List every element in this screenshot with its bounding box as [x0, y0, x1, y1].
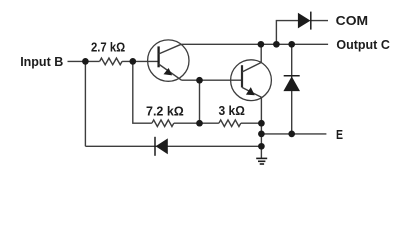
- wire 3k to emitter node: [241, 122, 262, 124]
- node ground rail junction: [258, 143, 265, 150]
- wire bottom rail: [85, 145, 261, 147]
- transistor Q2: [231, 44, 272, 100]
- wire 7.2k to node: [174, 122, 219, 124]
- svg-text:2.7 kΩ: 2.7 kΩ: [91, 41, 125, 55]
- node Q1 base junction: [129, 58, 136, 65]
- node Q2 collector junction: [258, 41, 265, 48]
- wire flyback vertical: [291, 44, 293, 134]
- ground: [256, 158, 267, 164]
- diode COM clamp: [298, 12, 311, 30]
- node input-resistor junction: [82, 58, 89, 65]
- label 3 kOhm: [219, 104, 245, 118]
- svg-text:COM: COM: [336, 14, 368, 28]
- svg-text:E: E: [336, 128, 343, 142]
- label Input B: [20, 55, 63, 69]
- wire output line: [181, 43, 328, 45]
- wire COM branch: [276, 21, 298, 45]
- label E: [336, 128, 343, 142]
- diode input clamp: [155, 137, 168, 156]
- wire Q2 emitter vertical: [260, 97, 262, 146]
- node flyback E junction: [288, 131, 295, 138]
- svg-text:3 kΩ: 3 kΩ: [219, 104, 245, 118]
- node Q1 emitter junction: [196, 77, 203, 84]
- svg-text:7.2 kΩ: 7.2 kΩ: [146, 104, 184, 118]
- resistor 7.2k zigzag: [152, 120, 174, 127]
- label COM: [336, 14, 368, 28]
- label Output C: [336, 38, 389, 52]
- node COM branch junction: [273, 41, 280, 48]
- node 3k emitter junction: [258, 120, 265, 127]
- diode flyback: [283, 76, 300, 91]
- svg-text:Input B: Input B: [20, 55, 63, 69]
- wire Q1 emitter node vertical: [199, 80, 201, 123]
- wire to Q1 base: [122, 60, 159, 62]
- resistor 2.7k zigzag: [100, 58, 123, 65]
- label 7.2 kOhm: [146, 104, 184, 118]
- wire left vertical to bottom rail: [84, 61, 86, 146]
- resistor 3k zigzag: [219, 120, 241, 127]
- transistor Q1: [148, 40, 189, 81]
- node flyback branch junction: [288, 41, 295, 48]
- wire input stub: [68, 60, 100, 62]
- wire ground stub: [260, 146, 262, 158]
- node 7.2k-3k junction: [196, 120, 203, 127]
- wire COM diode to label: [311, 20, 328, 22]
- wire base-node vertical: [133, 61, 152, 123]
- wire E line: [261, 133, 326, 135]
- svg-text:Output C: Output C: [336, 38, 389, 52]
- label 2.7 kOhm: [91, 41, 125, 55]
- node E line junction: [258, 131, 265, 138]
- wire Q1 emitter to Q2 base: [182, 79, 243, 81]
